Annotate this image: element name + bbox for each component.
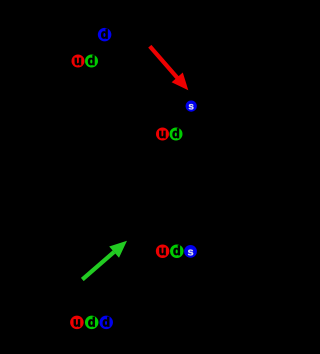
svg-text:d: d — [88, 54, 96, 68]
udd cluster: quark d (blue) — [99, 315, 113, 329]
quark u (red, neutron cluster) — [72, 54, 85, 68]
svg-text:d: d — [172, 127, 180, 141]
svg-text:s: s — [187, 246, 193, 258]
udd cluster: quark d (green) — [85, 315, 99, 329]
quark d (green, lambda cluster) — [170, 127, 183, 141]
svg-text:d: d — [102, 315, 110, 329]
svg-text:d: d — [101, 28, 109, 42]
green arrow (udd to uds) — [82, 241, 127, 280]
svg-text:d: d — [173, 244, 181, 258]
svg-text:s: s — [188, 102, 194, 113]
svg-text:d: d — [88, 315, 96, 329]
quark d (blue, top of neutron cluster) — [98, 28, 112, 42]
quark s (blue, after transition) — [186, 101, 197, 113]
uds cluster: quark d (green) — [170, 244, 184, 258]
svg-text:u: u — [159, 127, 167, 141]
uds cluster: quark s (blue) — [184, 245, 197, 258]
uds cluster: quark u (red) — [156, 244, 170, 258]
svg-text:u: u — [159, 244, 167, 258]
quark d (green, neutron cluster) — [85, 54, 98, 68]
svg-text:u: u — [74, 54, 82, 68]
red arrow (d to s transition) — [150, 46, 189, 90]
svg-text:u: u — [73, 315, 81, 329]
udd cluster: quark u (red) — [70, 315, 84, 329]
quark u (red, lambda cluster) — [156, 127, 169, 141]
